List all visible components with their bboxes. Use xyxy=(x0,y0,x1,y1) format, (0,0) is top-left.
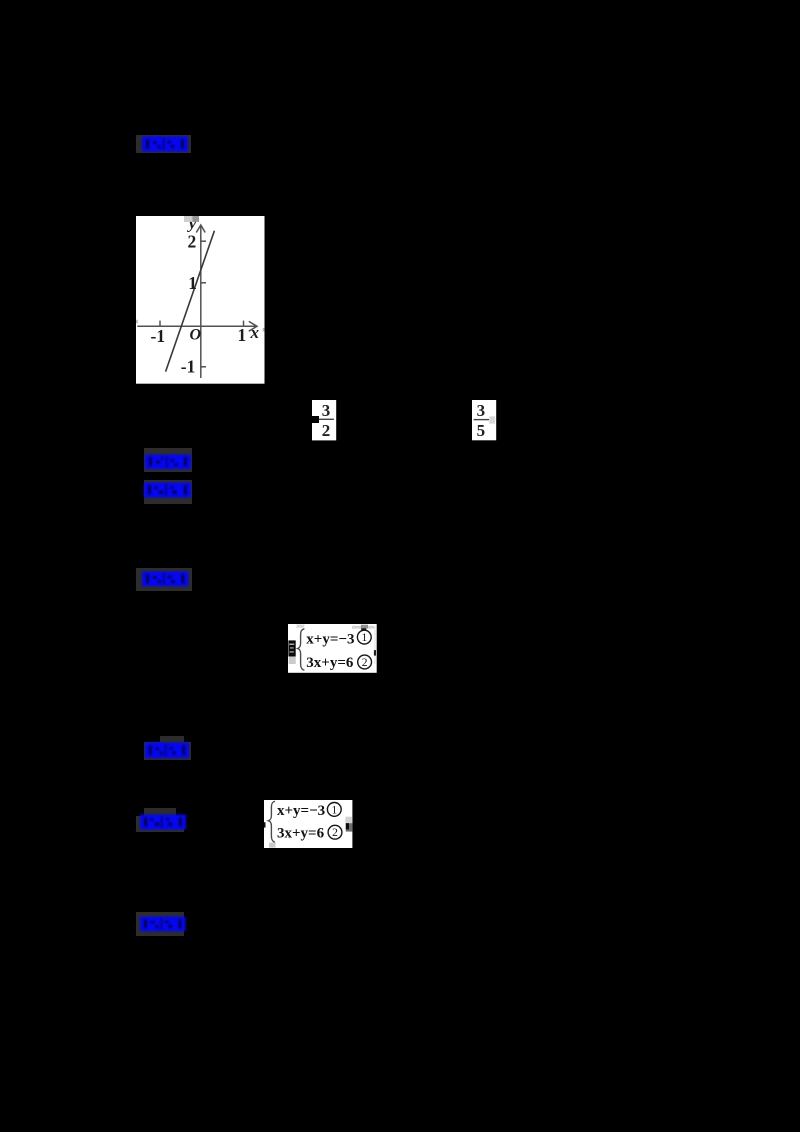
y-axis xyxy=(200,225,202,378)
circled 2 xyxy=(328,825,342,839)
gray handle top-left xyxy=(296,624,304,627)
tick y=2 xyxy=(201,240,206,242)
svg-text:1: 1 xyxy=(331,804,337,816)
svg-text:x+y=−3: x+y=−3 xyxy=(277,803,325,819)
tick y=1 xyxy=(201,281,206,283)
svg-text:2: 2 xyxy=(322,421,331,440)
dark mark right edge xyxy=(373,650,375,656)
gray handle right: light over dark with black blob xyxy=(345,816,352,823)
blue label L2 【分析】 xyxy=(145,454,191,470)
blue label L6 【详解】 xyxy=(140,814,186,830)
svg-text:1: 1 xyxy=(188,273,197,293)
circled 2 xyxy=(357,655,371,669)
minus sign of -3/2 xyxy=(306,416,319,423)
tick y=-1 xyxy=(201,365,206,367)
equation system image 2 xyxy=(264,800,353,848)
equation system image 1 xyxy=(288,624,377,673)
svg-text:3x+y=6: 3x+y=6 xyxy=(277,825,325,841)
blue label L3 【详解】 xyxy=(144,482,191,498)
y-axis arrowhead xyxy=(196,225,205,233)
gray handle right-mid xyxy=(263,328,265,331)
plotted line xyxy=(166,230,215,371)
label highlight 6 upper notch xyxy=(144,808,176,816)
gray handle left-mid xyxy=(136,319,138,323)
circled 1 xyxy=(327,802,341,816)
circled 1 xyxy=(357,630,371,644)
tick x=-1 xyxy=(159,320,161,326)
black tick left edge xyxy=(264,822,266,827)
svg-text:1: 1 xyxy=(361,632,367,644)
tick x=1 xyxy=(243,320,245,326)
gray handle top-right xyxy=(351,626,374,629)
svg-text:1: 1 xyxy=(238,325,247,345)
x-axis arrowhead xyxy=(249,321,257,331)
x-axis xyxy=(137,325,256,327)
svg-text:-1: -1 xyxy=(181,356,196,376)
label highlight 5 upper notch xyxy=(160,736,184,742)
curly brace xyxy=(297,629,304,671)
svg-text:2: 2 xyxy=(188,231,197,251)
gray handle bottom-left xyxy=(288,656,295,663)
svg-text:2: 2 xyxy=(332,827,338,839)
svg-text:5: 5 xyxy=(476,421,485,440)
label highlight 5 xyxy=(144,742,192,760)
gray handle right of bar xyxy=(489,416,495,423)
svg-text:3: 3 xyxy=(322,401,331,420)
graph image xyxy=(136,216,265,384)
white background of graph xyxy=(136,216,265,384)
black text block left xyxy=(288,640,295,656)
label highlight 7 xyxy=(136,912,184,936)
svg-text:-1: -1 xyxy=(151,326,166,346)
label highlight 1 xyxy=(136,135,191,153)
blue label L4 【点睛】 xyxy=(142,571,189,587)
svg-text:3x+y=6: 3x+y=6 xyxy=(306,655,354,671)
gray handle top xyxy=(184,216,192,222)
label highlight 3 xyxy=(144,480,192,504)
svg-text:x+y=−3: x+y=−3 xyxy=(306,631,354,647)
svg-text:x: x xyxy=(250,323,260,342)
curly brace xyxy=(268,801,275,842)
label highlight 6 xyxy=(136,816,184,832)
svg-text:3: 3 xyxy=(476,401,485,420)
blue label L1 【答案】 xyxy=(142,136,188,152)
svg-text:2: 2 xyxy=(361,657,367,669)
gray handle bottom-left xyxy=(269,842,276,847)
blue label L5 【答案】 xyxy=(145,742,189,759)
label highlight 4 xyxy=(136,568,192,591)
fraction 3/5 image xyxy=(472,400,497,441)
fraction -3/2 image xyxy=(312,400,337,441)
label highlight 2 xyxy=(144,448,192,472)
blue label L7 【点睛】 xyxy=(140,916,186,932)
svg-text:O: O xyxy=(190,326,202,343)
